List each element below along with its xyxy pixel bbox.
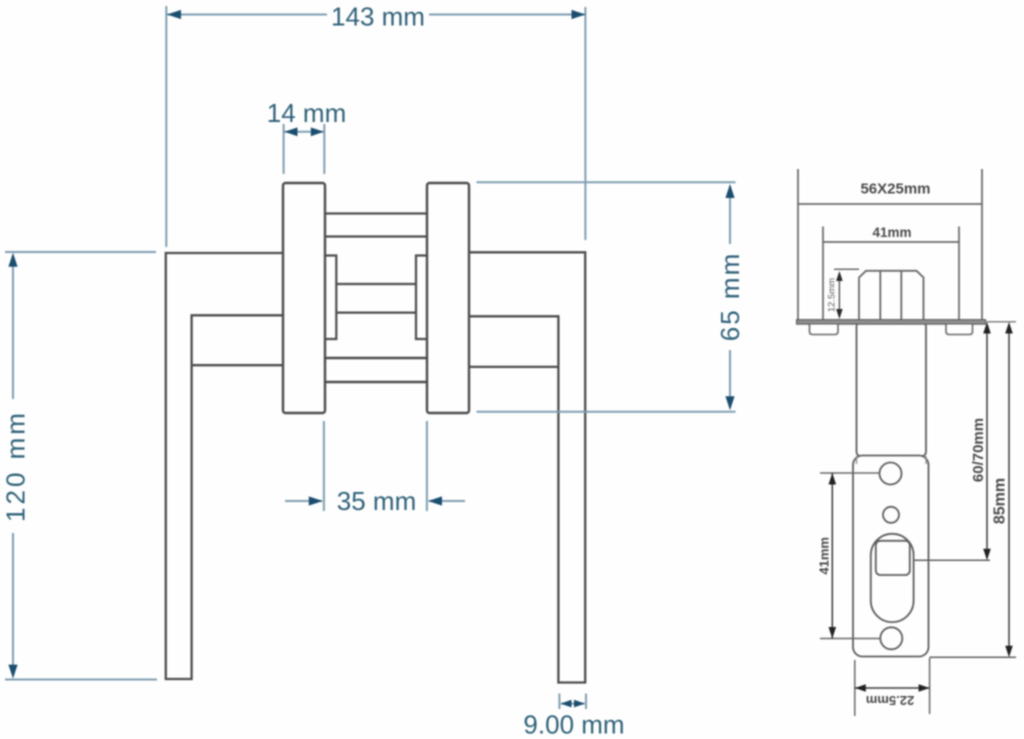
svg-text:35 mm: 35 mm — [337, 486, 416, 516]
screw hole top — [880, 463, 902, 485]
dim 12.5mm — [834, 268, 859, 270]
upper connecting rod — [325, 214, 427, 237]
left lever handle — [166, 253, 284, 679]
svg-text:56X25mm: 56X25mm — [860, 181, 930, 198]
svg-text:85mm: 85mm — [992, 478, 1009, 524]
dim 35 mm — [285, 421, 465, 511]
latch body — [857, 323, 927, 457]
left mounting tab — [810, 325, 839, 335]
lower connecting rod — [325, 358, 427, 382]
spindle pointer line — [915, 559, 991, 561]
svg-text:9.00 mm: 9.00 mm — [523, 710, 624, 739]
dim 65 mm — [477, 182, 736, 412]
dim 60/70mm — [986, 325, 988, 559]
dim 41mm hole spacing — [820, 473, 880, 639]
right mounting tab — [946, 325, 973, 335]
right rose plate — [427, 183, 469, 413]
latch case — [859, 271, 924, 320]
dim 85mm — [930, 656, 1017, 658]
spindle bar — [336, 284, 416, 313]
left spindle guide — [325, 256, 337, 340]
svg-text:22.5mm: 22.5mm — [866, 693, 914, 708]
dim 22.5mm — [855, 658, 930, 716]
dim 120 mm — [5, 252, 157, 680]
svg-text:143 mm: 143 mm — [331, 2, 425, 32]
dim 56X25mm — [798, 203, 982, 205]
dim 143 mm — [166, 6, 585, 247]
square spindle hole — [876, 541, 910, 575]
right spindle guide — [416, 256, 428, 340]
pin hole — [883, 507, 899, 523]
dim 41mm latch width — [823, 227, 959, 321]
svg-text:41mm: 41mm — [872, 225, 911, 240]
screw hole bottom — [880, 627, 902, 649]
svg-text:120 mm: 120 mm — [1, 410, 31, 522]
latch plate — [853, 456, 929, 657]
right lever handle — [468, 252, 586, 682]
dim 14 mm — [284, 124, 325, 174]
svg-text:41mm: 41mm — [817, 537, 832, 575]
left rose plate — [283, 183, 325, 413]
spindle cam slot — [871, 534, 914, 622]
faceplate reference extension — [985, 321, 1016, 323]
svg-text:14 mm: 14 mm — [267, 98, 346, 128]
svg-text:60/70mm: 60/70mm — [970, 418, 987, 482]
dim 9.00 mm — [559, 694, 586, 710]
svg-text:65 mm: 65 mm — [715, 252, 745, 341]
door section lines — [798, 169, 982, 320]
svg-text:12.5mm: 12.5mm — [826, 278, 837, 312]
latch faceplate — [797, 320, 986, 325]
